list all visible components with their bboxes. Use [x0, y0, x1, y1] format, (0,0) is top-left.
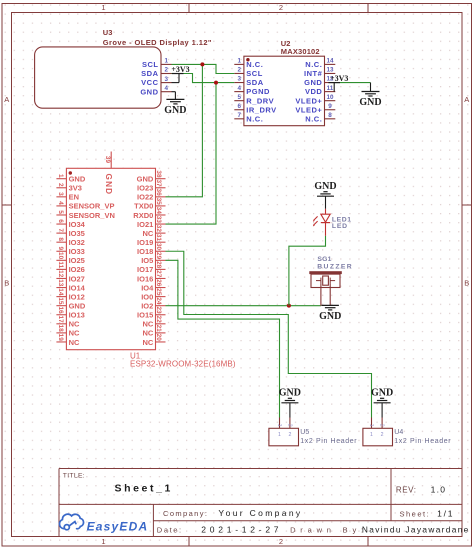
- svg-text:Company:: Company:: [163, 509, 208, 518]
- svg-text:14: 14: [326, 58, 334, 65]
- svg-text:26: 26: [155, 279, 162, 287]
- svg-text:10: 10: [57, 252, 64, 260]
- svg-text:NC: NC: [69, 338, 80, 347]
- svg-text:10: 10: [326, 94, 334, 101]
- svg-text:GND: GND: [140, 87, 158, 96]
- svg-text:GND: GND: [69, 175, 86, 184]
- svg-text:16: 16: [57, 306, 64, 314]
- svg-text:SDA: SDA: [141, 69, 158, 78]
- svg-text:GND: GND: [69, 301, 86, 310]
- svg-text:5: 5: [237, 94, 241, 101]
- svg-text:2: 2: [381, 432, 384, 438]
- svg-text:2: 2: [279, 3, 283, 12]
- wire SDA: U3 pin2 to U2 pin3: [172, 74, 235, 83]
- svg-text:Your Company: Your Company: [218, 508, 302, 518]
- svg-text:IO0: IO0: [141, 292, 153, 301]
- svg-text:39: 39: [104, 156, 111, 164]
- wire LED1 cathode to IO2 junction: [289, 236, 326, 306]
- svg-text:GND: GND: [319, 311, 341, 322]
- svg-text:TITLE:: TITLE:: [63, 473, 85, 480]
- ground GND at U3 pin4: [164, 92, 186, 116]
- svg-text:NC: NC: [69, 320, 80, 329]
- svg-text:U5: U5: [300, 429, 309, 436]
- svg-text:22: 22: [155, 316, 162, 324]
- svg-text:Sheet_1: Sheet_1: [115, 483, 173, 495]
- svg-text:IR_DRV: IR_DRV: [246, 105, 276, 114]
- svg-text:29: 29: [155, 252, 162, 260]
- svg-text:1: 1: [368, 424, 374, 427]
- svg-text:8: 8: [57, 237, 64, 241]
- svg-text:NC: NC: [142, 329, 153, 338]
- svg-text:IO2: IO2: [141, 301, 153, 310]
- svg-text:1: 1: [101, 537, 105, 546]
- power +3V3 flag at U3 VCC: [171, 65, 189, 83]
- ground GND above LED1: [314, 181, 336, 209]
- svg-text:6: 6: [57, 219, 64, 223]
- svg-text:9: 9: [57, 246, 64, 250]
- ground GND at buzzer pin2: [319, 305, 341, 322]
- wire SDA: junction to U1 IO21: [166, 83, 217, 224]
- svg-text:MAX30102: MAX30102: [281, 47, 320, 56]
- svg-text:21: 21: [155, 325, 162, 333]
- svg-text:VDD: VDD: [305, 87, 322, 96]
- svg-text:2: 2: [279, 537, 283, 546]
- svg-text:13: 13: [326, 67, 334, 74]
- svg-text:N.C.: N.C.: [305, 60, 322, 69]
- svg-text:13: 13: [57, 279, 64, 287]
- svg-text:14: 14: [57, 288, 64, 296]
- svg-text:36: 36: [155, 189, 162, 197]
- svg-text:IO34: IO34: [69, 220, 86, 229]
- svg-text:NC: NC: [142, 320, 153, 329]
- svg-text:VLED+: VLED+: [295, 105, 322, 114]
- svg-text:GND: GND: [164, 105, 186, 116]
- svg-text:24: 24: [155, 297, 162, 305]
- svg-text:30: 30: [155, 243, 162, 251]
- svg-text:TXD0: TXD0: [134, 202, 153, 211]
- svg-text:ESP32-WROOM-32E(16MB): ESP32-WROOM-32E(16MB): [130, 360, 236, 369]
- svg-text:IO5: IO5: [141, 256, 153, 265]
- svg-text:28: 28: [155, 261, 162, 269]
- svg-text:REV:: REV:: [396, 486, 417, 495]
- svg-text:GND: GND: [359, 97, 381, 108]
- svg-text:6: 6: [237, 103, 241, 110]
- svg-text:8: 8: [328, 112, 332, 119]
- svg-text:VLED+: VLED+: [295, 96, 322, 105]
- svg-text:4: 4: [237, 85, 241, 92]
- svg-text:IO14: IO14: [69, 283, 86, 292]
- svg-text:IO32: IO32: [69, 238, 85, 247]
- svg-text:31: 31: [155, 234, 162, 242]
- svg-text:U3: U3: [103, 28, 113, 37]
- svg-text:IO19: IO19: [137, 238, 153, 247]
- svg-text:3: 3: [237, 76, 241, 83]
- svg-text:IO21: IO21: [137, 220, 153, 229]
- svg-text:R_DRV: R_DRV: [246, 96, 274, 105]
- buzzer SG1: [309, 256, 353, 306]
- svg-text:IO25: IO25: [69, 256, 85, 265]
- ground GND above U5 pin2: [279, 388, 301, 418]
- svg-text:Sheet:: Sheet:: [400, 510, 431, 519]
- svg-text:7: 7: [237, 112, 241, 119]
- svg-text:IO18: IO18: [137, 247, 153, 256]
- svg-text:2: 2: [57, 183, 64, 187]
- svg-text:3: 3: [57, 192, 64, 196]
- svg-text:+3V3: +3V3: [171, 65, 189, 74]
- svg-text:2: 2: [288, 432, 291, 438]
- svg-text:IO22: IO22: [137, 193, 153, 202]
- wire IO18 to U4 pin1: [166, 251, 372, 417]
- svg-text:1: 1: [278, 432, 281, 438]
- svg-text:N.C.: N.C.: [305, 114, 322, 123]
- pin header U4 1x2: [363, 418, 451, 446]
- svg-text:1x2 Pin Header: 1x2 Pin Header: [300, 438, 357, 445]
- svg-text:1x2 Pin Header: 1x2 Pin Header: [394, 438, 451, 445]
- svg-text:4: 4: [165, 85, 169, 92]
- svg-text:PGND: PGND: [246, 87, 270, 96]
- svg-text:IO4: IO4: [141, 283, 154, 292]
- svg-text:Navindu Jayawardane: Navindu Jayawardane: [362, 525, 470, 535]
- svg-text:IO23: IO23: [137, 184, 153, 193]
- svg-text:2: 2: [165, 67, 169, 74]
- wire SCL: junction to U1 IO22: [166, 64, 203, 196]
- svg-text:15: 15: [57, 297, 64, 305]
- svg-text:1/1: 1/1: [437, 509, 454, 519]
- svg-text:7: 7: [57, 228, 64, 232]
- wire IO2 to buzzer pin1: [166, 305, 321, 307]
- svg-text:1: 1: [57, 174, 64, 178]
- svg-text:SENSOR_VP: SENSOR_VP: [69, 202, 115, 211]
- svg-text:2: 2: [237, 67, 241, 74]
- svg-text:23: 23: [155, 306, 162, 314]
- svg-text:IO35: IO35: [69, 229, 85, 238]
- node SDA junction: [214, 81, 218, 85]
- svg-text:1: 1: [237, 58, 241, 65]
- svg-text:11: 11: [57, 261, 64, 268]
- svg-text:IO17: IO17: [137, 265, 153, 274]
- svg-text:B: B: [464, 279, 469, 288]
- node IO2 junction: [287, 304, 291, 308]
- svg-text:34: 34: [155, 207, 162, 215]
- svg-text:27: 27: [155, 270, 162, 278]
- svg-text:38: 38: [155, 170, 162, 178]
- svg-text:NC: NC: [142, 229, 153, 238]
- svg-text:Date:: Date:: [157, 525, 183, 534]
- svg-text:EasyEDA: EasyEDA: [87, 520, 149, 534]
- svg-text:33: 33: [155, 216, 162, 224]
- svg-text:5: 5: [57, 210, 64, 214]
- microcontroller U1 ESP32-WROOM-32E(16MB): [56, 152, 235, 369]
- svg-text:IO26: IO26: [69, 265, 85, 274]
- sensor U2 MAX30102: [234, 39, 335, 126]
- wire U2 GND pin12 to ground: [335, 82, 370, 84]
- svg-text:N.C.: N.C.: [246, 60, 263, 69]
- svg-text:B: B: [4, 279, 9, 288]
- svg-text:37: 37: [155, 179, 162, 187]
- svg-text:2: 2: [379, 424, 385, 427]
- power +3V3 flag at U2 VDD: [328, 74, 348, 92]
- svg-text:EN: EN: [69, 193, 79, 202]
- svg-text:19: 19: [57, 334, 64, 342]
- svg-text:GND: GND: [371, 388, 393, 399]
- svg-text:IO33: IO33: [69, 247, 85, 256]
- svg-text:3V3: 3V3: [69, 184, 82, 193]
- svg-text:SG1: SG1: [317, 256, 331, 263]
- svg-text:SCL: SCL: [142, 60, 159, 69]
- svg-text:BUZZER: BUZZER: [317, 263, 353, 270]
- svg-text:1: 1: [370, 432, 373, 438]
- wire U3 VCC to +3V3: [172, 82, 180, 84]
- svg-text:9: 9: [328, 103, 332, 110]
- svg-text:GND: GND: [314, 181, 336, 192]
- svg-text:U4: U4: [394, 429, 403, 436]
- svg-text:2: 2: [286, 424, 292, 427]
- svg-text:IO12: IO12: [69, 292, 85, 301]
- svg-text:IO27: IO27: [69, 274, 85, 283]
- svg-text:3: 3: [165, 76, 169, 83]
- svg-text:GND: GND: [137, 175, 154, 184]
- svg-text:NC: NC: [142, 338, 153, 347]
- svg-text:GND: GND: [279, 388, 301, 399]
- svg-text:+3V3: +3V3: [330, 74, 348, 83]
- svg-text:N.C.: N.C.: [246, 114, 263, 123]
- svg-text:1: 1: [101, 3, 105, 12]
- svg-text:VCC: VCC: [141, 78, 158, 87]
- svg-text:Drawn By:: Drawn By:: [290, 525, 368, 534]
- svg-text:20: 20: [155, 334, 162, 342]
- display U3 Grove - OLED Display 1.12": [35, 28, 212, 108]
- wire IO5 to U5 pin1: [166, 260, 280, 417]
- svg-text:18: 18: [57, 325, 64, 333]
- svg-text:12: 12: [57, 270, 64, 278]
- LED LED1: [313, 209, 352, 236]
- pin header U5 1x2: [269, 418, 357, 446]
- svg-text:SCL: SCL: [246, 69, 262, 78]
- svg-text:17: 17: [57, 316, 64, 324]
- wire SCL: U3 pin1 to U2 pin2: [172, 64, 235, 73]
- svg-text:1: 1: [276, 424, 282, 427]
- svg-text:Grove - OLED Display 1.12": Grove - OLED Display 1.12": [103, 38, 212, 47]
- svg-text:2021-12-27: 2021-12-27: [201, 524, 282, 534]
- ground GND above U4 pin2: [371, 388, 393, 418]
- ground GND at U2 pin12: [359, 83, 381, 109]
- svg-text:IO16: IO16: [137, 274, 153, 283]
- svg-text:35: 35: [155, 198, 162, 206]
- svg-text:RXD0: RXD0: [133, 211, 153, 220]
- svg-text:GND: GND: [304, 78, 322, 87]
- svg-text:A: A: [4, 95, 9, 104]
- svg-text:A: A: [464, 95, 469, 104]
- svg-text:NC: NC: [69, 329, 80, 338]
- svg-text:1: 1: [165, 58, 169, 65]
- svg-text:GND: GND: [104, 174, 113, 196]
- svg-text:IO13: IO13: [69, 311, 85, 320]
- svg-text:1.0: 1.0: [431, 485, 447, 495]
- svg-text:IO15: IO15: [137, 311, 153, 320]
- svg-text:11: 11: [327, 85, 334, 92]
- svg-text:4: 4: [57, 201, 64, 205]
- svg-text:SDA: SDA: [246, 78, 263, 87]
- node SCL junction: [200, 62, 204, 66]
- svg-text:32: 32: [155, 225, 162, 233]
- svg-text:25: 25: [155, 288, 162, 296]
- svg-text:LED: LED: [332, 223, 348, 230]
- svg-text:SENSOR_VN: SENSOR_VN: [69, 211, 115, 220]
- svg-text:INT#: INT#: [304, 69, 323, 78]
